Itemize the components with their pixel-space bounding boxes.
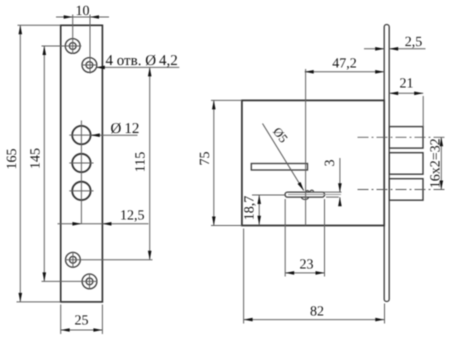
bolt 2 — [389, 153, 423, 175]
dim 18,7 — [252, 195, 286, 225]
dim 23 — [285, 199, 324, 277]
dim 25 (bottom) — [61, 305, 103, 335]
dim 47,2 — [305, 69, 385, 226]
dim 16x2=32 — [440, 137, 442, 189]
faceplate outline — [61, 25, 103, 302]
dim 145 — [42, 46, 98, 281]
svg-text:115: 115 — [134, 152, 149, 172]
faceplate edge view — [384, 25, 389, 302]
svg-text:Ø5: Ø5 — [270, 125, 290, 146]
screw hole bottom-right — [82, 273, 97, 289]
dim 12,5 — [58, 223, 149, 225]
leader d5 — [263, 124, 304, 191]
svg-text:47,2: 47,2 — [332, 57, 357, 72]
screw hole top-right — [82, 58, 98, 73]
dim 21 — [389, 93, 423, 127]
d5 bumps — [302, 190, 314, 199]
leader d12 — [91, 134, 138, 136]
svg-text:12,5: 12,5 — [120, 208, 145, 223]
svg-text:18,7: 18,7 — [243, 196, 258, 221]
svg-text:Ø 12: Ø 12 — [111, 121, 140, 137]
svg-text:3: 3 — [323, 160, 338, 167]
dim 10 (top) — [56, 15, 109, 74]
slot 2 (key slot with d5 feature) — [285, 192, 325, 197]
svg-text:16х2=32: 16х2=32 — [429, 138, 444, 188]
hole center crosses — [69, 121, 95, 225]
svg-text:2,5: 2,5 — [405, 35, 423, 50]
bolt 3 — [389, 179, 423, 201]
dim 2,5 — [364, 48, 426, 50]
centerlines bolts 1,3 — [358, 137, 447, 189]
svg-text:4 отв. Ø 4,2: 4 отв. Ø 4,2 — [106, 53, 178, 69]
dim 165 (left) — [17, 25, 61, 302]
bolt 1 — [389, 127, 423, 149]
svg-text:25: 25 — [75, 314, 89, 329]
big hole 2 — [72, 154, 90, 172]
slot2 extension lines for dim 3 — [310, 192, 342, 197]
dim 115 — [65, 67, 153, 259]
slot 1 (upper slot) — [251, 164, 307, 171]
svg-text:82: 82 — [310, 305, 324, 320]
leader 4 otv d4,2 — [96, 66, 180, 68]
dim 3 — [339, 158, 341, 206]
big hole 3 — [72, 182, 90, 200]
dim 75 — [211, 100, 242, 225]
svg-text:75: 75 — [198, 152, 213, 166]
screw hole bottom-left — [66, 252, 81, 268]
svg-text:165: 165 — [5, 149, 20, 170]
screw hole top-left (countersunk) — [65, 39, 80, 54]
svg-text:10: 10 — [76, 4, 90, 19]
slot2 slit line — [288, 194, 341, 196]
dim 82 — [244, 229, 385, 324]
svg-text:21: 21 — [400, 77, 414, 92]
svg-text:23: 23 — [300, 258, 314, 273]
svg-text:145: 145 — [28, 148, 43, 169]
case outline — [242, 100, 384, 225]
big hole 1 (d12) — [72, 126, 90, 144]
